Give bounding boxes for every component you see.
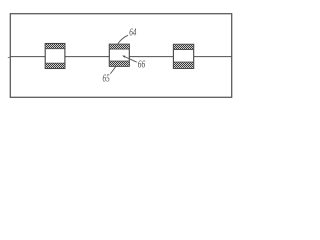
svg-text:66: 66 <box>138 60 146 71</box>
svg-text:64: 64 <box>129 27 137 38</box>
svg-text:65: 65 <box>103 74 110 85</box>
